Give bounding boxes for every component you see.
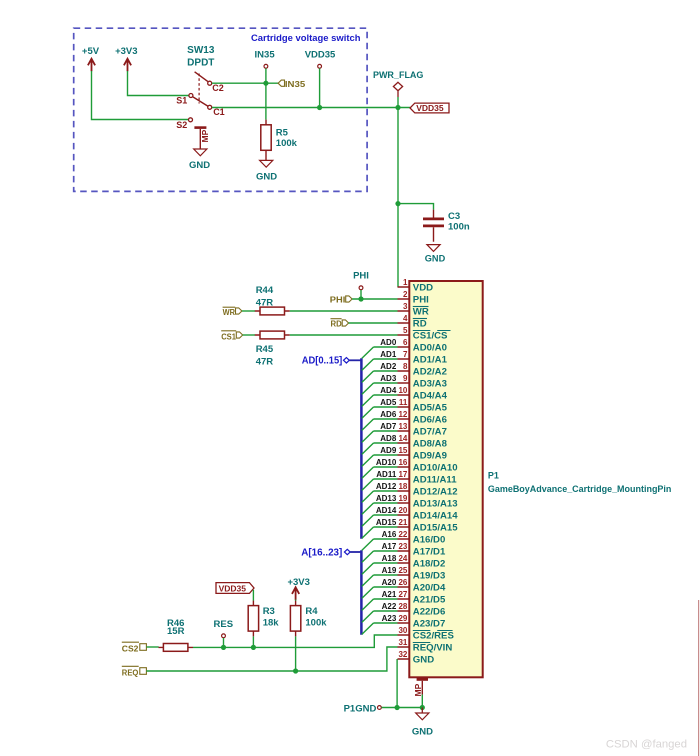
pin 7 line: [398, 358, 410, 360]
bus entry A18: [362, 563, 374, 574]
junction C3 branch: [395, 201, 400, 206]
svg-text:AD12: AD12: [376, 482, 397, 491]
svg-text:CS1: CS1: [221, 331, 236, 341]
pin 6 line: [398, 346, 410, 348]
svg-text:21: 21: [398, 518, 407, 527]
svg-text:+3V3: +3V3: [115, 46, 137, 57]
svg-text:22: 22: [398, 530, 407, 539]
wire AD13 to pin 19: [374, 502, 398, 504]
pin 12 line: [398, 418, 410, 420]
bus label AD[0..15] diamond: [344, 358, 350, 363]
wire AD11 to pin 17: [374, 478, 398, 480]
resistor R46 leads: [159, 646, 194, 648]
svg-text:8: 8: [403, 362, 408, 371]
svg-text:PWR_FLAG: PWR_FLAG: [373, 70, 424, 80]
switch SW13 contact C1: [208, 105, 212, 109]
svg-text:AD7: AD7: [380, 422, 397, 431]
junction PWR_FLAG/VDD35: [395, 105, 400, 110]
svg-text:AD12/A12: AD12/A12: [413, 486, 458, 497]
svg-text:CSDN @fanged: CSDN @fanged: [606, 739, 687, 751]
bus entry A16: [362, 539, 374, 550]
pin 24 line: [398, 562, 410, 564]
pin 5 line: [398, 334, 410, 336]
svg-text:RD: RD: [331, 319, 342, 329]
wire REQ to pin 31: [146, 647, 397, 671]
switch SW13 pole S2 contact: [189, 118, 193, 122]
svg-text:A20: A20: [382, 578, 397, 587]
wire AD8 to pin 14: [374, 442, 398, 444]
wire pin 32 to ground net: [396, 659, 398, 708]
svg-text:VDD35: VDD35: [416, 103, 444, 113]
pin 30 line: [398, 634, 410, 636]
svg-text:CS1/CS: CS1/CS: [413, 330, 448, 341]
wire AD14 to pin 20: [374, 514, 398, 516]
mounting pin MP (P1) stem: [421, 681, 423, 695]
wire AD5 to pin 11: [374, 406, 398, 408]
svg-text:47R: 47R: [256, 298, 274, 309]
bus entry AD4: [362, 395, 374, 406]
svg-text:24: 24: [398, 554, 407, 563]
global label VDD35 (R3) outline: [216, 583, 254, 594]
svg-text:GND: GND: [425, 254, 446, 264]
svg-text:AD3/A3: AD3/A3: [413, 378, 447, 389]
svg-text:WR: WR: [223, 307, 236, 317]
wire MP to ground: [421, 695, 423, 708]
bus entry A19: [362, 575, 374, 586]
svg-text:MP: MP: [200, 129, 210, 142]
wire AD0 to pin 6: [374, 346, 398, 348]
wire A17 to pin 23: [374, 550, 398, 552]
capacitor C3 plates: [423, 219, 444, 226]
svg-text:AD7/A7: AD7/A7: [413, 426, 447, 437]
global label VDD35 outline: [410, 103, 449, 113]
wire C1 row (VDD35 net): [212, 107, 410, 109]
wire AD10 to pin 16: [374, 466, 398, 468]
resistor R45 body: [260, 331, 285, 339]
pin 1 line: [398, 286, 410, 288]
pin 10 line: [398, 394, 410, 396]
power flag diamond: [393, 82, 402, 97]
wire AD4 to pin 10: [374, 394, 398, 396]
wire CS2 to R46: [146, 646, 158, 648]
svg-text:AD14: AD14: [376, 506, 397, 515]
bus AD[0..15] stub: [349, 359, 361, 361]
svg-text:A23/D7: A23/D7: [413, 618, 446, 629]
svg-text:A19: A19: [382, 566, 397, 575]
bus entry A21: [362, 599, 374, 610]
svg-text:GND: GND: [189, 160, 210, 171]
svg-text:AD0: AD0: [380, 338, 397, 347]
svg-text:GameBoyAdvance_Cartridge_Mount: GameBoyAdvance_Cartridge_MountingPin: [488, 484, 672, 494]
svg-text:AD8: AD8: [380, 434, 397, 443]
svg-text:AD9: AD9: [380, 446, 397, 455]
wire AD7 to pin 13: [374, 430, 398, 432]
svg-text:VDD: VDD: [413, 282, 433, 293]
ground (P1) stub: [421, 708, 423, 714]
graphic box (cartridge voltage switch): [74, 28, 367, 191]
svg-text:AD8/A8: AD8/A8: [413, 438, 448, 449]
bus entry A17: [362, 551, 374, 562]
pin 22 line: [398, 538, 410, 540]
svg-text:AD10: AD10: [376, 458, 397, 467]
pin 31 line: [398, 646, 410, 648]
global label CS2 overline: [122, 641, 139, 643]
junction C1/VDD35 column: [317, 105, 322, 110]
bus A[16..23] vertical: [360, 550, 363, 635]
wire +3V3 to R4: [295, 600, 297, 602]
svg-text:A17: A17: [382, 542, 397, 551]
svg-text:9: 9: [403, 374, 408, 383]
bus label A[16..23] diamond: [344, 549, 350, 554]
wire R3 to CS2 net: [252, 636, 254, 647]
svg-text:AD1: AD1: [380, 350, 397, 359]
pin 14 line: [398, 442, 410, 444]
ground (R5): [260, 160, 273, 167]
wire AD15 to pin 21: [374, 526, 398, 528]
global label PHI glyph: [346, 296, 352, 302]
svg-text:S1: S1: [176, 96, 187, 106]
resistor R4 leads: [295, 601, 297, 637]
bus entry AD13: [362, 503, 374, 514]
wire A22 to pin 28: [374, 610, 398, 612]
resistor R3 leads: [252, 601, 254, 637]
svg-text:DPDT: DPDT: [187, 57, 214, 68]
svg-text:100k: 100k: [305, 617, 327, 628]
svg-text:GND: GND: [256, 172, 277, 183]
ground (C3): [427, 245, 440, 252]
svg-text:AD0/A0: AD0/A0: [413, 342, 447, 353]
bus entry AD6: [362, 419, 374, 430]
global label CS1 overline: [221, 330, 236, 332]
junction C2/IN35: [263, 81, 268, 86]
pin 28 line: [398, 610, 410, 612]
bus entry AD9: [362, 455, 374, 466]
svg-text:A18/D2: A18/D2: [413, 558, 446, 569]
junction MP/P1GND: [420, 705, 425, 710]
bus entry AD15: [362, 527, 374, 538]
svg-text:3: 3: [403, 302, 408, 311]
svg-text:A21/D5: A21/D5: [413, 594, 446, 605]
svg-text:13: 13: [398, 422, 407, 431]
pin 13 line: [398, 430, 410, 432]
global label CS1 glyph: [236, 332, 242, 338]
svg-text:47R: 47R: [256, 357, 274, 368]
power +5V arrow: [88, 59, 95, 72]
svg-text:VDD35: VDD35: [305, 49, 336, 60]
svg-text:14: 14: [398, 434, 407, 443]
svg-text:P1: P1: [488, 470, 499, 480]
global label WR glyph: [236, 308, 242, 314]
svg-text:2: 2: [403, 290, 408, 299]
svg-text:VDD35: VDD35: [219, 583, 247, 593]
pin 25 line: [398, 574, 410, 576]
switch SW13 blade lower: [193, 97, 208, 106]
junction R3/CS2: [251, 645, 256, 650]
svg-text:6: 6: [403, 338, 408, 347]
wire A18 to pin 24: [374, 562, 398, 564]
svg-text:R44: R44: [256, 285, 274, 296]
switch SW13 mechanical link: [198, 74, 200, 104]
bus AD[0..15] vertical: [360, 358, 363, 539]
svg-text:A22/D6: A22/D6: [413, 606, 446, 617]
terminal VDD35 circle: [318, 64, 322, 68]
wire AD2 to pin 8: [374, 370, 398, 372]
wire PHI stub: [360, 290, 362, 299]
wire VDD35 main vertical: [397, 97, 399, 287]
bus entry AD3: [362, 383, 374, 394]
svg-text:PHI: PHI: [353, 270, 369, 281]
svg-text:AD11: AD11: [376, 470, 397, 479]
svg-text:AD4/A4: AD4/A4: [413, 390, 448, 401]
svg-text:IN35: IN35: [255, 49, 276, 60]
pin 16 line: [398, 466, 410, 468]
svg-text:R45: R45: [256, 344, 274, 355]
global label REQ glyph: [140, 668, 147, 675]
svg-text:AD15: AD15: [376, 518, 397, 527]
pin 29 line: [398, 622, 410, 624]
svg-text:R5: R5: [276, 127, 289, 138]
svg-text:18k: 18k: [263, 617, 280, 628]
pin 4 line: [398, 322, 410, 324]
svg-text:AD5/A5: AD5/A5: [413, 402, 448, 413]
wire R45 to pin 5: [290, 334, 398, 336]
junction RES/CS2: [221, 645, 226, 650]
svg-text:A19/D3: A19/D3: [413, 570, 446, 581]
svg-text:20: 20: [398, 506, 407, 515]
pin 20 line: [398, 514, 410, 516]
svg-text:1: 1: [403, 278, 408, 287]
svg-text:AD9/A9: AD9/A9: [413, 450, 447, 461]
ground (P1): [416, 713, 429, 720]
svg-text:PHI: PHI: [330, 295, 346, 305]
svg-text:AD5: AD5: [380, 398, 397, 407]
svg-text:A21: A21: [382, 590, 397, 599]
bus entry AD8: [362, 443, 374, 454]
svg-text:C1: C1: [213, 107, 225, 117]
wire AD6 to pin 12: [374, 418, 398, 420]
resistor R44 body: [260, 307, 285, 315]
svg-text:A23: A23: [382, 614, 397, 623]
svg-text:AD14/A14: AD14/A14: [413, 510, 458, 521]
svg-text:AD11/A11: AD11/A11: [413, 474, 457, 485]
svg-text:A[16..23]: A[16..23]: [301, 547, 342, 558]
mounting pin MP (switch) stem: [199, 129, 201, 149]
resistor R45 leads: [255, 334, 290, 336]
svg-text:100n: 100n: [448, 222, 470, 233]
svg-text:A22: A22: [382, 602, 397, 611]
global label RD overline: [331, 318, 342, 320]
ground (switch MP): [194, 149, 207, 156]
bus entry AD2: [362, 371, 374, 382]
bus entry AD10: [362, 467, 374, 478]
svg-text:4: 4: [403, 314, 408, 323]
pin 26 line: [398, 586, 410, 588]
pin 17 line: [398, 478, 410, 480]
svg-text:AD10/A10: AD10/A10: [413, 462, 458, 473]
bus A[16..23] stub: [350, 551, 361, 553]
resistor R3 body: [248, 606, 258, 632]
resistor R44 leads: [255, 310, 290, 312]
svg-text:27: 27: [398, 590, 407, 599]
svg-text:5: 5: [403, 326, 408, 335]
terminal IN35 circle: [264, 64, 268, 68]
svg-text:26: 26: [398, 578, 407, 587]
pin 19 line: [398, 502, 410, 504]
svg-text:AD13/A13: AD13/A13: [413, 498, 458, 509]
svg-text:AD2/A2: AD2/A2: [413, 366, 447, 377]
svg-text:15: 15: [398, 446, 407, 455]
svg-text:28: 28: [398, 602, 407, 611]
wire A21 to pin 27: [374, 598, 398, 600]
svg-text:AD6: AD6: [380, 410, 397, 419]
svg-text:AD4: AD4: [380, 386, 397, 395]
wire WR to R44: [242, 310, 255, 312]
wire CS1 to R45: [243, 334, 255, 336]
global label REQ overline: [122, 665, 139, 667]
svg-text:A16: A16: [382, 530, 397, 539]
svg-text:R4: R4: [305, 606, 318, 617]
wire AD12 to pin 18: [374, 490, 398, 492]
svg-text:AD13: AD13: [376, 494, 397, 503]
svg-text:P1GND: P1GND: [344, 703, 377, 714]
svg-text:30: 30: [398, 626, 407, 635]
wire VDD35 column: [319, 68, 321, 107]
bus entry AD1: [362, 359, 374, 370]
pin 30 name overlines: [413, 630, 453, 632]
svg-text:CS2/RES: CS2/RES: [413, 630, 455, 641]
svg-text:15R: 15R: [167, 626, 185, 637]
svg-text:A16/D0: A16/D0: [413, 534, 446, 545]
pin 4 name overline: [413, 318, 427, 320]
svg-text:18: 18: [398, 482, 407, 491]
svg-text:+5V: +5V: [82, 46, 100, 57]
bus entry A23: [362, 623, 374, 634]
bus entry AD7: [362, 431, 374, 442]
wire +5V to S2: [92, 71, 189, 120]
bus entry AD0: [362, 347, 374, 358]
pin 11 line: [398, 406, 410, 408]
capacitor C3 leads: [433, 210, 435, 242]
mounting pin MP (P1) tick: [417, 678, 428, 681]
wire P1GND: [382, 707, 423, 709]
wire AD3 to pin 9: [374, 382, 398, 384]
svg-text:10: 10: [398, 386, 407, 395]
pin 32 line: [398, 658, 410, 660]
junction R4/REQ: [293, 668, 298, 673]
global label CS2 glyph: [140, 644, 147, 651]
bus entry AD12: [362, 491, 374, 502]
wire R44 to pin 3: [290, 310, 398, 312]
svg-text:IN35: IN35: [285, 79, 305, 89]
pin 31 name overline: [413, 642, 431, 644]
wire to C3: [398, 204, 434, 210]
terminal P1GND circle: [378, 706, 382, 710]
wire VDD35 to R3: [252, 590, 254, 601]
svg-text:AD6/A6: AD6/A6: [413, 414, 447, 425]
terminal RES circle: [222, 634, 226, 638]
svg-text:PHI: PHI: [413, 294, 429, 305]
pin 8 line: [398, 370, 410, 372]
bus entry A20: [362, 587, 374, 598]
svg-text:AD2: AD2: [380, 362, 397, 371]
wire AD9 to pin 15: [374, 454, 398, 456]
pin 2 line: [398, 298, 410, 300]
wire RES stub: [223, 638, 225, 648]
svg-text:WR: WR: [413, 306, 429, 317]
svg-text:AD15/A15: AD15/A15: [413, 522, 458, 533]
svg-text:100k: 100k: [276, 138, 298, 149]
svg-text:A17/D1: A17/D1: [413, 546, 446, 557]
svg-text:31: 31: [398, 638, 407, 647]
bus entry AD14: [362, 515, 374, 526]
pin 3 name overline: [413, 306, 429, 308]
wire AD1 to pin 7: [374, 358, 398, 360]
svg-text:A20/D4: A20/D4: [413, 582, 446, 593]
pin 3 line: [398, 310, 410, 312]
svg-text:REQ/VIN: REQ/VIN: [413, 642, 453, 653]
pin 18 line: [398, 490, 410, 492]
svg-text:GND: GND: [413, 654, 434, 665]
svg-text:19: 19: [398, 494, 407, 503]
junction pin32/P1GND: [395, 705, 400, 710]
decorative stripe: [698, 600, 700, 756]
switch SW13 pole S1 contact: [189, 94, 193, 98]
svg-text:RES: RES: [214, 619, 234, 630]
resistor R46 body: [163, 644, 188, 652]
power +3V3 (R4) arrow: [292, 587, 299, 600]
resistor R4 body: [290, 606, 300, 632]
wire R4 to REQ net: [295, 636, 297, 671]
wire A16 to pin 22: [374, 538, 398, 540]
svg-text:REQ: REQ: [122, 667, 139, 677]
junction PHI: [358, 296, 363, 301]
svg-text:Cartridge voltage switch: Cartridge voltage switch: [251, 33, 361, 43]
svg-text:AD3: AD3: [380, 374, 397, 383]
svg-text:MP: MP: [413, 683, 423, 696]
bus entry AD11: [362, 479, 374, 490]
switch SW13 blade upper: [195, 72, 208, 82]
svg-text:7: 7: [403, 350, 408, 359]
svg-text:C2: C2: [212, 83, 224, 93]
svg-text:C3: C3: [448, 211, 460, 222]
svg-text:23: 23: [398, 542, 407, 551]
svg-text:CS2: CS2: [122, 643, 139, 653]
pin 9 line: [398, 382, 410, 384]
pin 21 line: [398, 526, 410, 528]
svg-text:29: 29: [398, 614, 407, 623]
svg-text:32: 32: [398, 650, 407, 659]
pin 5 name overlines: [413, 330, 451, 332]
global label IN35 glyph: [278, 80, 284, 86]
mounting pin MP (switch) tick: [194, 126, 206, 129]
wire PHI to pin 2: [352, 298, 397, 300]
wire A20 to pin 26: [374, 586, 398, 588]
wire CS2 to pin 30: [193, 635, 398, 647]
wire A23 to pin 29: [374, 622, 398, 624]
switch SW13 contact C2: [208, 81, 212, 85]
svg-text:25: 25: [398, 566, 407, 575]
svg-text:S2: S2: [176, 120, 187, 130]
svg-text:R3: R3: [263, 606, 275, 617]
resistor R5 leads: [265, 120, 267, 161]
wire C2 row to IN35 label: [212, 82, 278, 84]
svg-text:RD: RD: [413, 318, 427, 329]
svg-text:SW13: SW13: [187, 45, 215, 56]
svg-text:AD1/A1: AD1/A1: [413, 354, 448, 365]
svg-text:A18: A18: [382, 554, 397, 563]
wire IN35 column: [265, 68, 267, 119]
wire +3V3 to S1: [128, 71, 189, 96]
